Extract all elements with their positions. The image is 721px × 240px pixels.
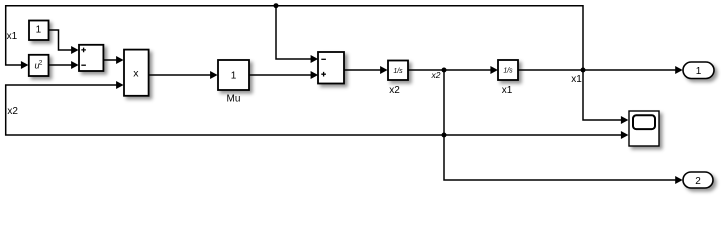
svg-text:2: 2 — [39, 59, 43, 66]
svg-text:x2: x2 — [7, 106, 18, 117]
svg-text:1/s: 1/s — [393, 68, 403, 75]
svg-text:1: 1 — [231, 71, 237, 82]
svg-text:x1: x1 — [571, 74, 582, 85]
svg-text:x2: x2 — [389, 85, 400, 96]
svg-text:2: 2 — [695, 176, 701, 187]
svg-text:1: 1 — [36, 25, 42, 36]
svg-text:x2: x2 — [431, 70, 441, 80]
svg-text:1: 1 — [696, 66, 702, 77]
svg-text:1/s: 1/s — [503, 67, 513, 74]
svg-text:x: x — [133, 68, 139, 80]
svg-text:x1: x1 — [502, 85, 513, 96]
svg-text:x1: x1 — [7, 31, 18, 42]
svg-text:Mu: Mu — [227, 94, 241, 105]
